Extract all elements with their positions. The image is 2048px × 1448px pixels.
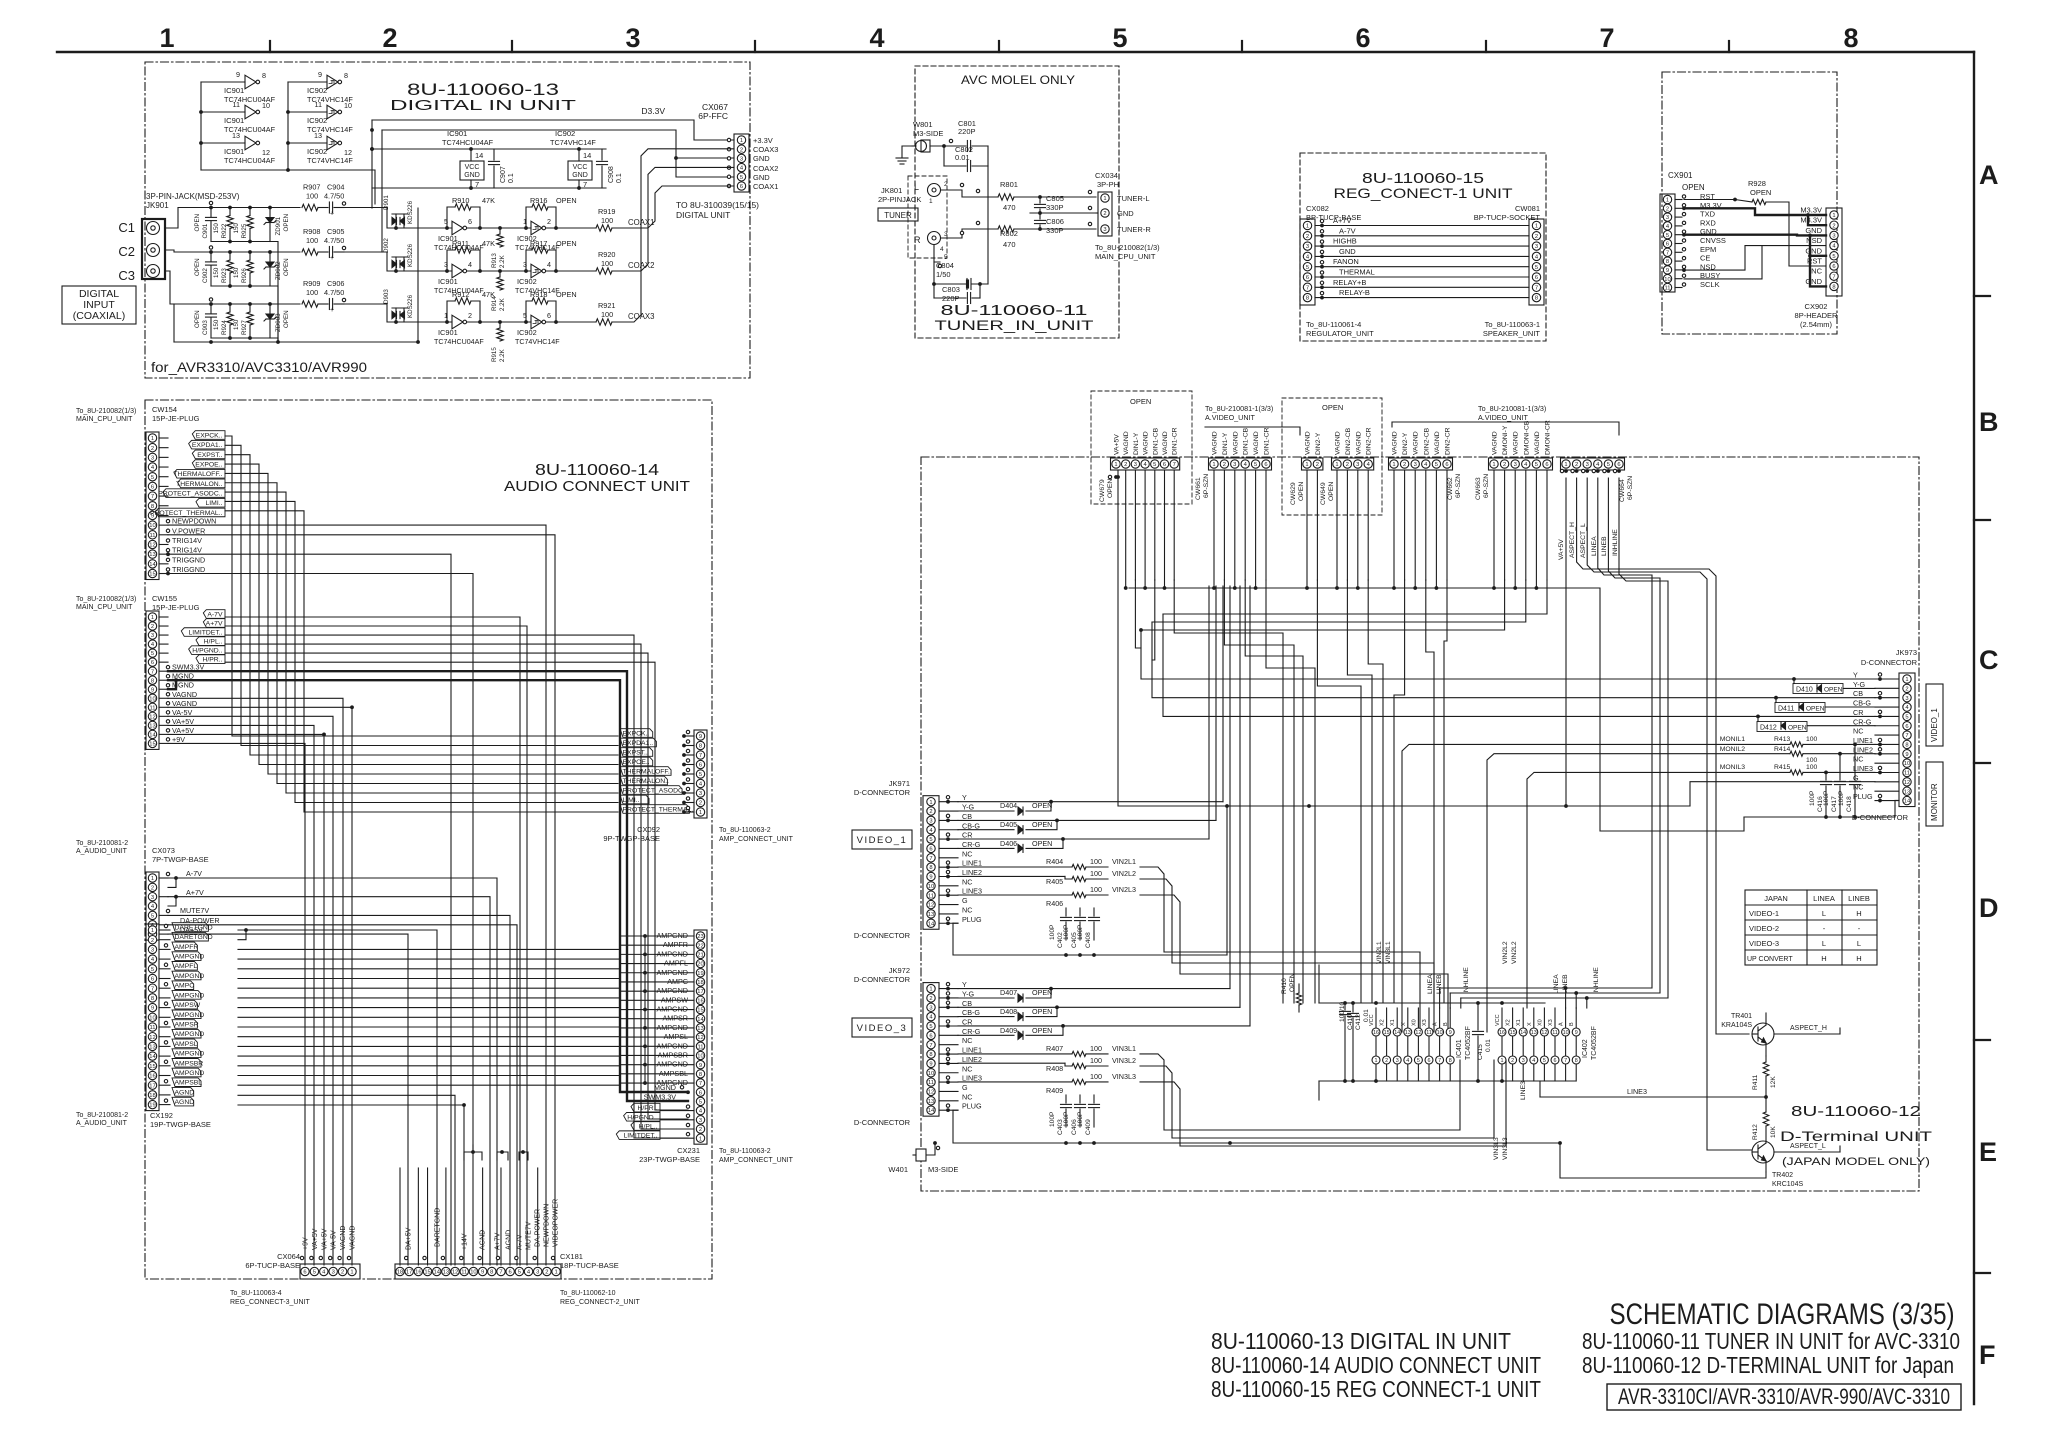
svg-text:EXPCK..: EXPCK..	[196, 432, 223, 439]
wire gate area rail	[417, 208, 419, 342]
svg-text:TXD: TXD	[1700, 210, 1716, 219]
svg-text:DIN1-Y: DIN1-Y	[1222, 432, 1229, 455]
wire DIN drop	[1394, 580, 1405, 1003]
svg-text:VA+5V: VA+5V	[321, 1228, 328, 1250]
flag PROTECT_ASODC.. cx092	[620, 786, 682, 795]
svg-text:GND: GND	[464, 172, 480, 179]
svg-text:OPEN: OPEN	[556, 290, 577, 299]
svg-text:D-CONNECTOR: D-CONNECTOR	[1861, 658, 1918, 667]
wire cx192 row 16	[238, 1075, 620, 1077]
svg-text:100: 100	[601, 310, 613, 319]
svg-text:2: 2	[740, 147, 743, 153]
svg-text:15: 15	[424, 1270, 430, 1276]
wire spare gate input bus IC901	[200, 82, 202, 170]
svg-text:GND: GND	[1805, 277, 1822, 286]
svg-text:H/PR..: H/PR..	[637, 1105, 657, 1112]
svg-text:A+7V: A+7V	[206, 620, 223, 627]
svg-text:OPEN: OPEN	[1107, 479, 1114, 498]
margin tick	[1974, 295, 1990, 297]
svg-text:(2.54mm): (2.54mm)	[1800, 320, 1833, 329]
svg-text:4: 4	[940, 246, 944, 253]
svg-text:VIN2L2: VIN2L2	[1511, 941, 1518, 964]
svg-text:3: 3	[929, 1005, 932, 1011]
svg-text:9: 9	[1905, 752, 1908, 758]
flag EXPST.. cx092	[620, 748, 653, 757]
svg-text:R410: R410	[1281, 978, 1288, 994]
wire DIN drop	[1444, 580, 1447, 1003]
svg-text:L: L	[914, 182, 919, 192]
wire row 2 gate link	[467, 270, 531, 272]
wire RELAY-B	[1315, 297, 1529, 299]
svg-text:5: 5	[1666, 233, 1669, 239]
svg-text:R926: R926	[241, 268, 248, 283]
svg-text:5: 5	[740, 175, 743, 181]
svg-text:4.7/50: 4.7/50	[324, 236, 344, 245]
svg-text:SWM3.3V: SWM3.3V	[644, 1092, 677, 1101]
flag AMPSR cx192	[159, 1026, 170, 1028]
svg-text:G: G	[962, 896, 968, 905]
svg-text:D: D	[1979, 893, 1999, 923]
svg-text:CW155: CW155	[152, 594, 177, 603]
svg-text:+: +	[330, 211, 334, 218]
wire DIN drop	[1245, 580, 1303, 1003]
svg-text:X0: X0	[1537, 1019, 1543, 1026]
svg-text:4: 4	[547, 260, 551, 269]
inverter IC902 pin1-2	[531, 221, 542, 235]
svg-text:100P: 100P	[1049, 924, 1056, 940]
wire EXP row 2	[225, 445, 618, 745]
svg-text:+9V: +9V	[303, 1237, 310, 1250]
capacitor C908 0.1	[601, 149, 603, 160]
svg-text:470: 470	[1003, 203, 1016, 212]
svg-text:GND: GND	[1805, 246, 1822, 255]
svg-text:2: 2	[699, 1127, 702, 1133]
svg-text:18P-TUCP-BASE: 18P-TUCP-BASE	[560, 1261, 619, 1270]
svg-text:8: 8	[151, 996, 154, 1002]
svg-text:6: 6	[1163, 462, 1166, 468]
svg-text:100: 100	[601, 259, 613, 268]
wire AGND drop 2	[238, 1105, 464, 1265]
svg-text:C905: C905	[327, 227, 344, 236]
wire jack pin5	[934, 245, 940, 262]
svg-text:2P-PINJACK: 2P-PINJACK	[878, 195, 921, 204]
resistor R924 150	[229, 304, 231, 312]
svg-text:18: 18	[149, 1093, 155, 1099]
flag AMPGND cx192	[159, 997, 170, 999]
wire input row 3	[165, 271, 300, 304]
wire CW664 stubs	[1560, 469, 1563, 472]
svg-text:OPEN: OPEN	[556, 196, 577, 205]
svg-text:3: 3	[151, 455, 154, 461]
svg-text:ASPECT_L: ASPECT_L	[1790, 1143, 1826, 1150]
svg-text:RXD: RXD	[1700, 218, 1716, 227]
svg-text:16: 16	[1373, 1030, 1379, 1036]
inverter IC901 spare pin9-8	[201, 81, 245, 83]
inverter IC901 spare pin11-10	[201, 111, 245, 113]
svg-text:3: 3	[1306, 244, 1309, 250]
resistor R914 2.2K	[499, 271, 501, 277]
svg-text:V.POWER: V.POWER	[172, 526, 205, 535]
connector CW664	[1561, 458, 1625, 470]
svg-text:12: 12	[149, 543, 155, 549]
svg-text:VIN2L1: VIN2L1	[1112, 857, 1136, 866]
wire cx181 risers	[399, 1168, 401, 1265]
inverter IC901 pin5-6	[452, 221, 463, 235]
capacitor C806 330P	[1039, 213, 1041, 219]
wire cx192 row 11	[238, 1026, 620, 1028]
wire MGND bold	[168, 680, 688, 1092]
svg-text:OPEN: OPEN	[556, 239, 577, 248]
svg-text:A-7V: A-7V	[517, 1234, 524, 1250]
svg-text:PLUG: PLUG	[962, 915, 982, 924]
svg-text:VIN2L2: VIN2L2	[1112, 869, 1136, 878]
svg-text:AMPSL: AMPSL	[175, 1041, 198, 1048]
page border right	[1973, 52, 1975, 1404]
flag AMPGND cx192	[159, 958, 170, 960]
svg-text:G: G	[962, 1083, 968, 1092]
wire EXP row 1	[225, 436, 618, 736]
svg-text:VA+5V: VA+5V	[172, 726, 194, 735]
svg-text:BP-TUCP-SOCKET: BP-TUCP-SOCKET	[1474, 213, 1541, 222]
svg-text:CX181: CX181	[560, 1252, 583, 1261]
wire cx192 row 9	[238, 1007, 620, 1009]
svg-text:2: 2	[1535, 234, 1538, 240]
svg-text:VIN3L3: VIN3L3	[1502, 1137, 1509, 1160]
svg-text:11: 11	[233, 100, 240, 109]
svg-text:4: 4	[1532, 1058, 1535, 1064]
wire VA5V long	[1118, 470, 1690, 806]
wire H/PGND	[225, 653, 688, 1119]
svg-text:OPEN: OPEN	[1032, 820, 1052, 829]
wire AGND drop 1	[238, 1095, 455, 1265]
svg-text:13: 13	[697, 1026, 703, 1032]
svg-text:FANON: FANON	[1333, 257, 1359, 266]
label MGND	[159, 688, 168, 690]
svg-text:ASPECT_H: ASPECT_H	[1790, 1025, 1827, 1032]
svg-text:18: 18	[397, 1270, 403, 1276]
flag PROTECT_THERMAL..	[159, 514, 168, 516]
unit box 8U-110060-14 AUDIO CONNECT UNIT	[145, 400, 712, 1279]
svg-text:SPEAKER_UNIT: SPEAKER_UNIT	[1483, 329, 1541, 338]
svg-text:7: 7	[475, 180, 479, 189]
svg-text:R411: R411	[1752, 1074, 1759, 1090]
svg-text:DMONI-CR: DMONI-CR	[1545, 420, 1552, 455]
capacitor C409 100P	[1093, 1095, 1095, 1103]
svg-text:150: 150	[233, 319, 240, 330]
svg-text:150: 150	[233, 267, 240, 278]
flag H/PGND.. cx231	[624, 1113, 660, 1122]
svg-text:6: 6	[1554, 1058, 1557, 1064]
wire TR402 emitter	[1560, 1143, 1766, 1178]
svg-text:DIN1-CR: DIN1-CR	[1264, 427, 1271, 455]
svg-text:DARETGND: DARETGND	[175, 934, 213, 941]
svg-text:R907: R907	[303, 183, 320, 192]
svg-text:R925: R925	[241, 223, 248, 238]
svg-text:VIDEO_3: VIDEO_3	[857, 1023, 908, 1034]
svg-text:D-CONNECTOR: D-CONNECTOR	[854, 1118, 911, 1127]
page border ruler top	[57, 51, 1974, 53]
svg-text:To_8U-210081-2: To_8U-210081-2	[76, 1112, 128, 1119]
zener ZD901 OPEN	[269, 208, 271, 218]
svg-text:3: 3	[1414, 462, 1417, 468]
svg-text:12K: 12K	[1770, 1076, 1777, 1088]
inverter IC902 pin3-4	[531, 264, 542, 278]
svg-text:12: 12	[1415, 1030, 1421, 1036]
svg-text:VAGND: VAGND	[1162, 431, 1169, 455]
svg-text:1: 1	[151, 615, 154, 621]
svg-text:VIDEOPOWER: VIDEOPOWER	[553, 1199, 560, 1247]
svg-text:6P-SZN: 6P-SZN	[1483, 474, 1490, 498]
flag AMPGND cx192	[159, 1075, 170, 1077]
flag AMPFR cx192	[159, 948, 170, 950]
svg-text:DIN1-Y: DIN1-Y	[1133, 432, 1140, 455]
svg-text:JK972: JK972	[889, 966, 910, 975]
svg-text:100: 100	[1806, 736, 1818, 743]
resistor R913 2.2K	[499, 228, 501, 234]
label box VIDEO_1 right	[1926, 684, 1943, 746]
svg-text:7: 7	[151, 986, 154, 992]
wire A-7V	[1315, 235, 1529, 237]
svg-text:6: 6	[1445, 462, 1448, 468]
svg-text:NC: NC	[1853, 727, 1863, 736]
wire TRIGGND	[168, 574, 473, 1266]
resistor R912 47K feedback	[447, 301, 455, 322]
wire row 3 gate link	[467, 321, 531, 323]
svg-text:VA+5V: VA+5V	[172, 717, 194, 726]
svg-text:IC902: IC902	[517, 277, 537, 286]
svg-text:(JAPAN MODEL ONLY): (JAPAN MODEL ONLY)	[1782, 1156, 1930, 1168]
svg-text:TC74HCU04AF: TC74HCU04AF	[442, 138, 494, 147]
svg-text:D409: D409	[1000, 1026, 1017, 1035]
svg-text:VAGND: VAGND	[1143, 431, 1150, 455]
flag A-7V	[159, 616, 168, 618]
svg-text:C907: C907	[500, 166, 507, 183]
svg-text:150: 150	[233, 223, 240, 234]
svg-text:LINEB: LINEB	[1848, 894, 1870, 903]
unit box CX901 service header	[1662, 72, 1837, 334]
svg-text:R415: R415	[1774, 764, 1790, 771]
svg-text:1: 1	[1666, 198, 1669, 204]
svg-text:6: 6	[151, 977, 154, 983]
svg-text:TO 8U-310039(15/15): TO 8U-310039(15/15)	[676, 200, 759, 210]
svg-text:H: H	[1856, 909, 1861, 918]
svg-text:EXPOE..: EXPOE..	[195, 461, 222, 468]
svg-text:3: 3	[1905, 696, 1908, 702]
connector CX092	[694, 730, 707, 818]
capacitor C901 OPEN	[210, 208, 212, 217]
wire RELAY+B	[1315, 286, 1529, 288]
svg-text:2: 2	[1385, 1058, 1388, 1064]
svg-text:1: 1	[350, 1270, 353, 1276]
svg-text:VAGND: VAGND	[172, 690, 197, 699]
svg-text:VAGND: VAGND	[1232, 431, 1239, 455]
wire monitor G	[1690, 782, 1875, 806]
wire CW664 INHLINE drop	[1461, 478, 1668, 998]
wire COAX3 to CX067	[612, 149, 734, 322]
ruler tick	[1728, 41, 1730, 52]
capacitor C907 0.1	[493, 149, 495, 160]
wire NSD	[1684, 246, 1826, 271]
svg-text:THERMALOFF..: THERMALOFF..	[623, 768, 672, 775]
resistor R923 150	[229, 252, 231, 260]
wire HIGHB	[1315, 245, 1529, 247]
svg-text:L: L	[1857, 939, 1861, 948]
svg-text:12: 12	[1541, 1030, 1547, 1036]
svg-text:7: 7	[1535, 285, 1538, 291]
svg-text:R924: R924	[221, 320, 228, 335]
svg-text:OPEN: OPEN	[1032, 801, 1052, 810]
svg-text:PLUG: PLUG	[962, 1102, 982, 1111]
svg-text:R918: R918	[530, 290, 547, 299]
label box DIGITAL INPUT COAXIAL	[62, 286, 136, 324]
svg-text:9: 9	[151, 687, 154, 693]
svg-text:10: 10	[928, 884, 934, 890]
svg-text:CX073: CX073	[152, 846, 175, 855]
svg-text:13: 13	[314, 131, 322, 140]
svg-text:14: 14	[583, 151, 591, 160]
svg-text:2: 2	[1103, 211, 1106, 217]
svg-text:+3.3V: +3.3V	[753, 136, 773, 145]
svg-text:R412: R412	[1752, 1124, 1759, 1140]
svg-text:8: 8	[1535, 296, 1538, 302]
label TRIG14V	[159, 553, 168, 555]
connector CX192	[146, 924, 159, 1111]
svg-text:D412: D412	[1760, 725, 1777, 732]
connector CX181	[395, 1264, 561, 1279]
svg-text:3: 3	[1535, 244, 1538, 250]
svg-text:9: 9	[151, 1006, 154, 1012]
svg-text:+: +	[330, 255, 334, 262]
svg-text:R801: R801	[1000, 180, 1018, 189]
diode D901 KDS226	[395, 214, 397, 228]
wire monitor Y	[1141, 630, 1875, 679]
wire row 1 gate link	[467, 227, 531, 229]
svg-text:M3-SIDE: M3-SIDE	[913, 129, 943, 138]
svg-text:D410: D410	[1796, 687, 1813, 694]
svg-text:CW663: CW663	[1475, 477, 1482, 500]
svg-text:LINE1: LINE1	[962, 1046, 982, 1055]
svg-text:R915: R915	[491, 347, 498, 362]
svg-text:R912: R912	[452, 290, 469, 299]
svg-text:3: 3	[699, 1118, 702, 1124]
svg-text:EXPDA1..: EXPDA1..	[623, 740, 654, 747]
svg-text:JK971: JK971	[889, 779, 910, 788]
svg-text:AMP_CONNECT_UNIT: AMP_CONNECT_UNIT	[719, 1157, 794, 1164]
svg-text:IC901: IC901	[224, 147, 244, 156]
svg-text:13: 13	[1904, 789, 1910, 795]
connector CX902	[1826, 208, 1842, 296]
wire main vertical rail B	[381, 130, 383, 252]
svg-text:6: 6	[547, 311, 551, 320]
wire LINE3 net	[1540, 1096, 1766, 1098]
label box MONITOR right	[1926, 762, 1943, 826]
ground symbol W801	[902, 146, 912, 158]
svg-text:2: 2	[929, 809, 932, 815]
wire DIN drop	[1135, 580, 1141, 648]
svg-text:REGULATOR_UNIT: REGULATOR_UNIT	[1306, 329, 1374, 338]
label box TUNER	[878, 208, 918, 221]
wire row 1 component ground	[211, 242, 278, 343]
wire EXP row 3	[225, 455, 618, 755]
svg-text:11: 11	[1426, 1030, 1432, 1036]
flag A+7V	[159, 625, 168, 627]
svg-text:8: 8	[151, 678, 154, 684]
capacitor C416 100P	[1825, 772, 1827, 780]
svg-text:NC: NC	[962, 1092, 972, 1101]
svg-text:5: 5	[518, 1270, 521, 1276]
resistor R927 150	[249, 304, 251, 312]
svg-text:LINE2: LINE2	[1853, 745, 1873, 754]
svg-text:ZD901: ZD901	[275, 216, 282, 235]
svg-text:VIN2L3: VIN2L3	[1112, 885, 1136, 894]
svg-text:W401: W401	[888, 1165, 908, 1174]
unit box 8U-110060-15 REG CONECT-1 UNIT	[1300, 153, 1546, 341]
svg-text:12: 12	[928, 1090, 934, 1096]
svg-text:100: 100	[306, 192, 318, 201]
svg-text:REG_CONECT-1 UNIT: REG_CONECT-1 UNIT	[1334, 185, 1514, 201]
wire RST to R928 to CX902	[1684, 200, 1752, 203]
svg-text:TR402: TR402	[1772, 1172, 1793, 1179]
flag THERMALON.. cx092	[620, 776, 667, 785]
svg-text:14: 14	[1520, 1030, 1526, 1036]
svg-text:R921: R921	[598, 301, 615, 310]
svg-text:LINEA: LINEA	[1813, 894, 1835, 903]
svg-text:16: 16	[1499, 1030, 1505, 1036]
connector CX064	[300, 1264, 360, 1279]
svg-text:2: 2	[382, 23, 397, 53]
svg-text:23P-TWGP-BASE: 23P-TWGP-BASE	[639, 1155, 700, 1164]
connector CW081	[1529, 219, 1544, 305]
svg-text:2: 2	[151, 446, 154, 452]
svg-text:2: 2	[1403, 462, 1406, 468]
svg-text:COAX3: COAX3	[753, 145, 778, 154]
svg-text:X2: X2	[1380, 1019, 1386, 1026]
svg-text:5: 5	[1535, 265, 1538, 271]
svg-text:11: 11	[149, 1025, 155, 1031]
svg-text:C806: C806	[1046, 217, 1064, 226]
svg-text:R928: R928	[1748, 179, 1766, 188]
capacitor C902 OPEN	[210, 252, 212, 261]
wire jk971 CB	[958, 819, 1216, 821]
svg-text:7: 7	[929, 856, 932, 862]
svg-text:R917: R917	[530, 239, 547, 248]
svg-text:ASPECT_H: ASPECT_H	[1569, 522, 1576, 558]
svg-text:100: 100	[1090, 885, 1102, 894]
svg-text:CW649: CW649	[1320, 482, 1327, 505]
svg-text:2: 2	[1511, 1058, 1514, 1064]
svg-text:3P-PIN-JACK(MSD-253V): 3P-PIN-JACK(MSD-253V)	[146, 192, 240, 201]
svg-text:10: 10	[1563, 1030, 1569, 1036]
connector CW154	[146, 432, 159, 580]
svg-text:JK901: JK901	[146, 201, 169, 210]
svg-text:DIN2-Y: DIN2-Y	[1402, 432, 1409, 455]
svg-text:2: 2	[1306, 234, 1309, 240]
svg-text:5: 5	[1435, 462, 1438, 468]
connector CW155	[146, 611, 159, 749]
svg-text:6: 6	[699, 763, 702, 769]
svg-text:11: 11	[928, 893, 934, 899]
svg-text:1: 1	[740, 138, 743, 144]
svg-text:6P-SZN: 6P-SZN	[1627, 476, 1634, 500]
svg-text:CW081: CW081	[1515, 204, 1540, 213]
svg-text:H/PGND..: H/PGND..	[627, 1114, 657, 1121]
ruler tick	[511, 41, 513, 52]
svg-text:1: 1	[1305, 462, 1308, 468]
wire jk973 ground bus	[1744, 816, 1895, 818]
svg-text:7: 7	[1832, 274, 1835, 280]
svg-text:1: 1	[1375, 1058, 1378, 1064]
svg-text:100P: 100P	[1077, 924, 1084, 940]
